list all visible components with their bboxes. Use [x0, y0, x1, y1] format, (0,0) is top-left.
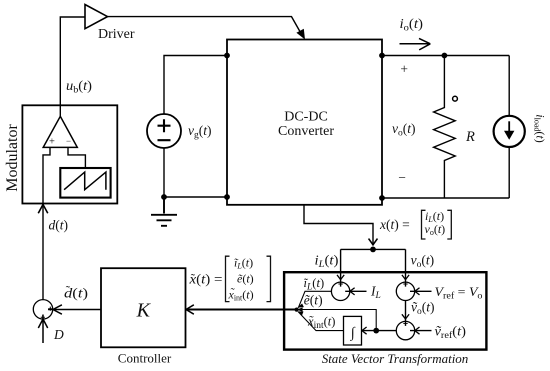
svg-text:+: +	[49, 137, 55, 148]
svg-text:vg(t): vg(t)	[188, 123, 212, 141]
svg-text:Converter: Converter	[278, 124, 334, 139]
svg-text:iload(t): iload(t)	[532, 114, 547, 142]
svg-text:Controller: Controller	[118, 351, 172, 366]
svg-text:˜: ˜	[309, 313, 314, 328]
svg-text:Vref = Vo: Vref = Vo	[435, 284, 483, 301]
svg-text:IL: IL	[370, 284, 381, 302]
svg-text:D: D	[53, 327, 64, 342]
svg-text:DC-DC: DC-DC	[284, 110, 328, 125]
svg-text:ub(t): ub(t)	[66, 78, 92, 96]
svg-text:vo(t): vo(t)	[411, 253, 435, 271]
svg-text:d(t): d(t)	[49, 218, 69, 233]
svg-text:R: R	[465, 129, 475, 145]
svg-text:ĩL(t): ĩL(t)	[304, 276, 325, 292]
svg-text:io(t): io(t)	[400, 16, 424, 34]
svg-text:ĩL(t): ĩL(t)	[234, 256, 253, 271]
svg-text:ẽ(t): ẽ(t)	[304, 293, 323, 308]
svg-text:Modulator: Modulator	[4, 124, 21, 192]
svg-text:˜: ˜	[191, 271, 196, 286]
svg-text:K: K	[136, 300, 152, 322]
svg-text:∫: ∫	[350, 325, 356, 341]
svg-text:ṽo(t): ṽo(t)	[411, 300, 435, 318]
svg-text:Driver: Driver	[98, 27, 135, 42]
svg-text:ṽref(t): ṽref(t)	[435, 324, 467, 342]
svg-text:x(t) =: x(t) =	[379, 217, 410, 232]
svg-text:+: +	[400, 62, 408, 77]
svg-text:vo(t): vo(t)	[425, 222, 446, 237]
svg-text:˜: ˜	[231, 285, 235, 299]
svg-text:−: −	[398, 170, 406, 185]
svg-text:−: −	[66, 136, 71, 146]
svg-text:ẽ(t): ẽ(t)	[237, 272, 254, 286]
svg-text:˜: ˜	[66, 283, 71, 298]
svg-text:State Vector Transformation: State Vector Transformation	[322, 351, 469, 366]
svg-text:vo(t): vo(t)	[392, 121, 416, 139]
svg-text:iL(t): iL(t)	[315, 253, 339, 271]
